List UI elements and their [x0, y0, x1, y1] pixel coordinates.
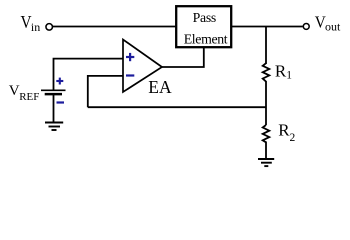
svg-text:R: R	[278, 121, 290, 140]
svg-text:in: in	[31, 20, 40, 34]
resistor R2	[263, 125, 270, 142]
svg-text:2: 2	[290, 132, 296, 144]
svg-text:Pass: Pass	[193, 10, 216, 25]
wire R1 to node A to R2	[265, 81, 267, 125]
svg-text:V: V	[21, 12, 32, 32]
svg-text:V: V	[9, 83, 20, 99]
terminal Vout	[303, 23, 309, 29]
svg-text:R: R	[275, 61, 287, 80]
svg-text:out: out	[325, 19, 341, 33]
op-amp minus input mark	[126, 74, 134, 76]
op-amp plus input mark	[126, 53, 134, 61]
resistor R1	[263, 63, 270, 81]
wire Pass Element to Vout	[232, 26, 303, 28]
battery plus mark	[56, 78, 63, 85]
wire Vin to Pass Element	[53, 26, 176, 28]
ground (VREF)	[45, 123, 63, 131]
svg-text:1: 1	[286, 69, 292, 81]
op-amp EA	[123, 40, 162, 93]
wire inverting input to feedback node	[88, 76, 123, 107]
wire noninverting input to VREF	[54, 59, 124, 90]
wire feedback from divider node A	[88, 106, 266, 108]
svg-text:REF: REF	[19, 91, 39, 103]
pass element block	[176, 6, 231, 47]
wire battery to ground	[53, 95, 55, 123]
battery VREF	[41, 89, 66, 91]
svg-text:Element: Element	[184, 32, 228, 47]
ground (R2)	[258, 159, 274, 166]
wire R2 to ground	[265, 142, 267, 160]
wire EA output to Pass Element	[162, 48, 204, 67]
terminal Vin	[46, 24, 53, 31]
wire output node down to R1	[265, 27, 267, 65]
battery minus mark	[57, 101, 65, 103]
svg-text:EA: EA	[148, 77, 172, 97]
